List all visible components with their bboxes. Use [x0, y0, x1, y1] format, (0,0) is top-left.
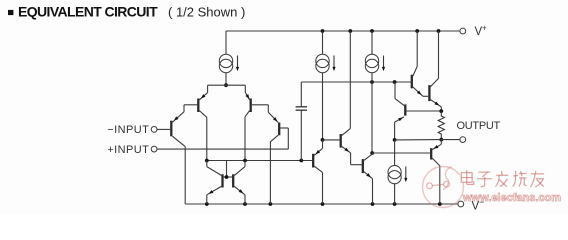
- svg-text:EQUIVALENT CIRCUIT: EQUIVALENT CIRCUIT: [18, 4, 158, 20]
- svg-text:( 1/2 Shown ): ( 1/2 Shown ): [168, 5, 245, 20]
- svg-text:www.elecfans.com: www.elecfans.com: [462, 192, 561, 204]
- svg-text:+INPUT: +INPUT: [107, 144, 149, 156]
- svg-text:−INPUT: −INPUT: [107, 124, 149, 136]
- svg-text:+: +: [482, 24, 487, 33]
- svg-text:OUTPUT: OUTPUT: [457, 120, 501, 132]
